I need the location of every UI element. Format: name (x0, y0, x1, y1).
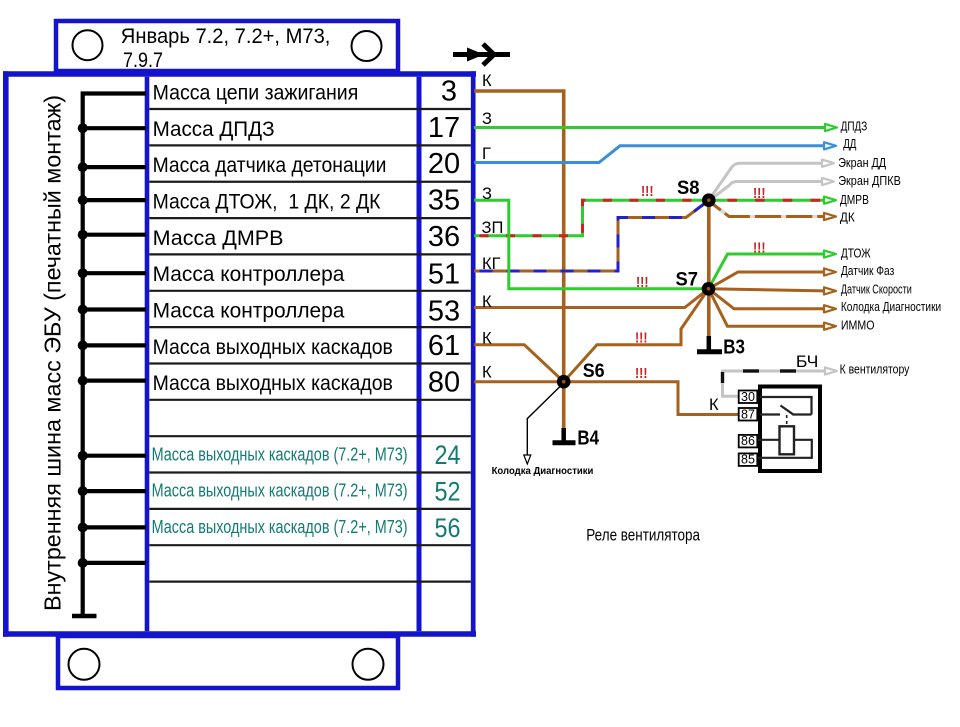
wire S7 to ground B3 (brown) (707, 289, 711, 337)
relay K1 (fan relay) body (760, 387, 820, 472)
svg-text:Внутренняя шина масс ЭБУ (печа: Внутренняя шина масс ЭБУ (печатный монта… (40, 95, 66, 611)
bus stub to spare row (83, 561, 146, 565)
table row: pin 35 Масса ДТОЖ, 1 ДК, 2 ДК (153, 185, 461, 217)
svg-text:ЗП: ЗП (482, 219, 504, 237)
bus stub to pin 17 (83, 126, 146, 130)
wire S7 to ДТОЖ (green) (709, 254, 825, 289)
svg-text:Колодка Диагностики: Колодка Диагностики (841, 299, 941, 314)
relay pin 85 terminal box (739, 453, 758, 467)
svg-text:БЧ: БЧ (796, 353, 819, 371)
wire pin 61 К (brown) to node S6 (474, 345, 564, 382)
bus stub to pin 24 (83, 454, 146, 458)
wire S6 to S7 (brown) (564, 289, 709, 382)
ECU bottom plate (58, 636, 398, 688)
svg-text:Колодка Диагностики: Колодка Диагностики (492, 465, 594, 477)
wire pin 80 К (brown) to node S6 (474, 380, 564, 383)
svg-text:К вентилятору: К вентилятору (840, 362, 910, 377)
bus stub to pin 56 (83, 525, 146, 529)
table row: pin 17 Масса ДПДЗ (153, 112, 461, 144)
relay internal: pin30 lead (760, 397, 812, 415)
wire S6 to ground B4 (brown) (562, 382, 566, 429)
ground B3 (697, 336, 722, 352)
table row: pin 61 Масса выходных каскадов (153, 330, 461, 362)
bus stub to pin 35 (83, 198, 146, 202)
svg-text:56: 56 (435, 513, 461, 543)
svg-text:Масса выходных каскадов: Масса выходных каскадов (153, 336, 393, 359)
svg-text:ДМРВ: ДМРВ (840, 192, 869, 207)
wire pin 20 Г (blue) to ДД (474, 146, 824, 163)
svg-text:!!!: !!! (635, 365, 648, 382)
table left border (145, 77, 150, 631)
bus stub to pin 52 (83, 489, 146, 493)
relay pin 87 terminal box (739, 407, 758, 421)
svg-text:Масса контроллера: Масса контроллера (153, 300, 345, 323)
internal ground bus (vertical) (83, 94, 146, 617)
svg-text:Масса цепи зажигания: Масса цепи зажигания (153, 81, 359, 104)
svg-text:Масса ДТОЖ, 1 ДК, 2 ДК: Масса ДТОЖ, 1 ДК, 2 ДК (153, 191, 382, 214)
relay pin 30 terminal box (739, 390, 758, 404)
svg-text:!!!: !!! (641, 183, 654, 200)
annotation arrow from S6 to Колодка Диагностики (524, 386, 561, 464)
svg-text:К: К (482, 330, 492, 348)
wire pin 36 ЗП (green/red) to node S8 (474, 200, 709, 236)
svg-text:7.9.7: 7.9.7 (123, 48, 163, 72)
relay internal: pin87 lead and contact (760, 406, 812, 415)
arrow to ДМРВ (824, 197, 836, 204)
bus stub to pin 80 (83, 379, 146, 383)
wire S8 to Экран ДПКВ (gray) (712, 182, 825, 199)
svg-text:3: 3 (441, 76, 457, 108)
table row: pin 36 Масса ДМРВ (153, 221, 461, 253)
svg-text:Масса ДПДЗ: Масса ДПДЗ (153, 118, 275, 141)
wire pin 17 З (green) to ДПДЗ (474, 126, 825, 129)
svg-text:В4: В4 (577, 428, 599, 450)
wire S8 to ДМРВ (green/red) (709, 199, 824, 202)
table row: pin 56 Масса выходных каскадов (7.2+, М73) (152, 513, 461, 543)
svg-text:К: К (482, 364, 492, 382)
arrow to ДПДЗ (825, 124, 837, 131)
wire pin 3 К (brown) down to node S6 (474, 91, 564, 382)
svg-text:З: З (482, 185, 492, 203)
connector arrow symbol (453, 44, 510, 65)
mounting hole top-left (73, 30, 103, 60)
svg-text:17: 17 (428, 112, 460, 144)
arrow to К вентилятору (825, 367, 837, 374)
bus junction dots (78, 123, 88, 568)
svg-text:53: 53 (428, 295, 460, 327)
table row: pin 52 Масса выходных каскадов (7.2+, М73) (152, 477, 461, 507)
ECU body outline (3, 71, 476, 637)
bus stub to pin 53 (83, 307, 146, 311)
svg-text:К: К (709, 396, 719, 414)
table row separators (149, 109, 471, 582)
svg-text:!!!: !!! (753, 240, 766, 257)
svg-text:Экран ДД: Экран ДД (838, 155, 886, 170)
bus stub to pin 61 (83, 343, 146, 347)
pin number column divider (417, 77, 422, 631)
wire S8 to Экран ДД (gray) (711, 163, 825, 197)
svg-text:ДПДЗ: ДПДЗ (841, 118, 868, 133)
svg-text:!!!: !!! (635, 330, 648, 347)
svg-text:Масса датчика детонации: Масса датчика детонации (153, 154, 387, 177)
svg-text:Масса выходных каскадов: Масса выходных каскадов (153, 372, 393, 395)
wire S6 to relay pin 87 (brown) (564, 382, 738, 415)
arrow to ИММО (824, 323, 836, 330)
arrow to Экран ДД (822, 160, 834, 167)
wire S7 to Датчик Скорости (brown) (709, 289, 825, 291)
svg-text:ДД: ДД (843, 136, 856, 151)
svg-text:85: 85 (741, 453, 755, 467)
svg-text:!!!: !!! (636, 274, 649, 291)
wire S8 to S7 (brown vertical) (707, 200, 711, 289)
table row: pin 51 Масса контроллера (153, 259, 461, 291)
ECU header plate (56, 21, 398, 72)
wire S7 to ИММО (brown) (709, 289, 825, 326)
svg-text:Масса контроллера: Масса контроллера (153, 263, 345, 286)
table row: pin 24 Масса выходных каскадов (7.2+, М73) (152, 440, 461, 470)
relay pin 86 terminal box (739, 434, 758, 448)
svg-text:В3: В3 (723, 337, 745, 359)
arrow to Экран ДПКВ (822, 178, 834, 185)
svg-text:Датчик Фаз: Датчик Фаз (841, 263, 894, 278)
arrow to ДК (824, 213, 836, 220)
mounting hole bottom-left (69, 649, 100, 680)
svg-text:КГ: КГ (482, 255, 501, 273)
relay internal: pin86 lead (758, 439, 780, 441)
svg-text:К: К (482, 72, 492, 90)
bus terminator bar (72, 614, 97, 619)
svg-text:Масса выходных каскадов (7.2+,: Масса выходных каскадов (7.2+, М73) (152, 481, 408, 501)
svg-text:20: 20 (428, 148, 460, 180)
wire pin 35 З (green) to node S7 (474, 200, 709, 289)
arrow to Датчик Скорости (824, 287, 836, 294)
svg-text:!!!: !!! (753, 185, 766, 202)
svg-text:35: 35 (428, 185, 460, 217)
wire S8 to ДК (brown/white dashed) (710, 202, 824, 217)
table row: pin 53 Масса контроллера (153, 295, 461, 327)
table row: pin 3 Масса цепи зажигания (153, 76, 457, 108)
svg-text:Масса выходных каскадов (7.2+,: Масса выходных каскадов (7.2+, М73) (152, 517, 408, 537)
svg-text:ДТОЖ: ДТОЖ (841, 246, 871, 261)
svg-text:61: 61 (428, 330, 460, 362)
svg-text:S7: S7 (676, 270, 699, 291)
svg-text:S8: S8 (677, 178, 700, 199)
node S7 (702, 282, 716, 296)
wire S7 to Колодка Диагностики (brown) (709, 289, 825, 309)
svg-text:36: 36 (428, 221, 460, 253)
wire БЧ relay pin30 to К вентилятору (gray/black dashed) (723, 371, 825, 396)
node S6 (557, 375, 571, 389)
svg-text:52: 52 (435, 477, 461, 507)
relay internal: coil (780, 426, 795, 454)
svg-text:ДК: ДК (840, 209, 855, 224)
svg-text:24: 24 (435, 440, 461, 470)
ground B4 (553, 428, 576, 443)
wire S7 to Датчик Фаз (brown) (709, 272, 825, 289)
svg-text:К: К (482, 293, 492, 311)
table row: pin 80 Масса выходных каскадов (153, 366, 461, 398)
arrow to Датчик Фаз (824, 268, 836, 275)
arrow to Колодка Диагностики (824, 305, 836, 312)
svg-text:З: З (482, 110, 492, 128)
svg-text:Масса ДМРВ: Масса ДМРВ (153, 227, 284, 250)
svg-text:Датчик Скорости: Датчик Скорости (841, 281, 912, 296)
svg-text:87: 87 (741, 407, 755, 421)
svg-text:S6: S6 (583, 361, 605, 382)
mounting hole bottom-right (353, 649, 384, 680)
arrow to ДТОЖ (824, 250, 836, 257)
wire pin 51 КГ (brown/blue) to node S8 (474, 202, 707, 271)
svg-text:Январь 7.2, 7.2+, М73,: Январь 7.2, 7.2+, М73, (121, 24, 331, 48)
bus stub to pin 36 (83, 233, 146, 237)
svg-text:Г: Г (482, 145, 491, 163)
svg-text:Масса выходных каскадов (7.2+,: Масса выходных каскадов (7.2+, М73) (152, 444, 408, 464)
svg-text:ИММО: ИММО (841, 317, 875, 332)
arrow to ДД (824, 142, 836, 149)
wire pin 53 К (brown) to node S7 (474, 289, 709, 308)
relay internal: actuator dashed link (786, 415, 788, 426)
svg-text:80: 80 (428, 366, 460, 398)
svg-text:86: 86 (741, 434, 755, 448)
node S8 (702, 193, 716, 207)
relay internal: pin85 lead (758, 440, 812, 458)
bus stub to pin 20 (83, 165, 146, 169)
svg-text:51: 51 (428, 259, 460, 291)
svg-text:Экран ДПКВ: Экран ДПКВ (838, 173, 901, 188)
svg-text:30: 30 (741, 390, 755, 404)
table row: pin 20 Масса датчика детонации (153, 148, 461, 180)
bus stub to pin 51 (83, 271, 146, 275)
mounting hole top-right (352, 31, 382, 61)
svg-text:Реле вентилятора: Реле вентилятора (586, 527, 700, 545)
